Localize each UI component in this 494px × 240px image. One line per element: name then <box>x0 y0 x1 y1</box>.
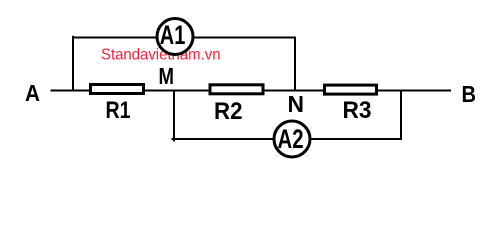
svg-text:A1: A1 <box>160 20 186 50</box>
svg-text:R3: R3 <box>343 97 372 124</box>
svg-text:B: B <box>462 81 477 107</box>
svg-text:R2: R2 <box>214 98 243 125</box>
svg-text:R1: R1 <box>106 97 131 124</box>
svg-text:N: N <box>288 91 305 117</box>
svg-text:A2: A2 <box>278 124 304 154</box>
svg-text:M: M <box>159 63 175 89</box>
svg-text:A: A <box>25 80 40 106</box>
